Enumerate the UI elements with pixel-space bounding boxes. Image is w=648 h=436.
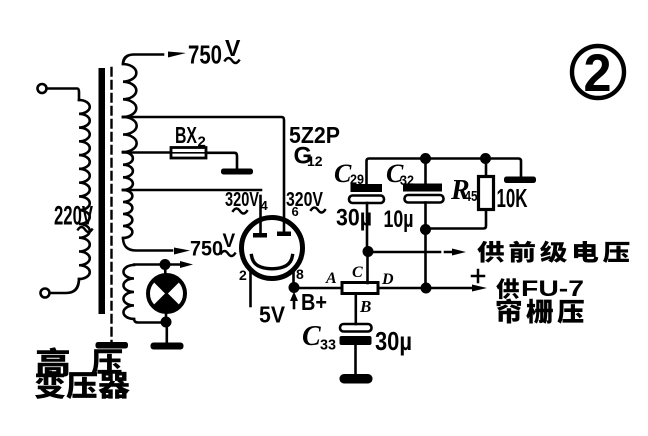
label 供前级电压	[477, 241, 504, 263]
svg-text:750: 750	[188, 40, 222, 70]
wire filament top lead with arrow	[134, 263, 182, 266]
wire tap to tube pin 4	[123, 189, 261, 192]
svg-text:220V: 220V	[54, 201, 93, 231]
svg-text:30µ: 30µ	[336, 205, 372, 232]
fuse BX2	[171, 148, 206, 159]
wire choke D to output	[378, 287, 474, 290]
tube anode pin 4 lead	[259, 196, 262, 233]
filter choke box	[342, 283, 378, 294]
transformer T1 primary bottom terminal	[41, 289, 50, 298]
tube filament	[252, 256, 293, 269]
svg-text:10µ: 10µ	[384, 206, 414, 233]
svg-text:32: 32	[400, 172, 414, 188]
wire primary top lead	[47, 89, 80, 101]
transformer HV secondary winding	[123, 64, 136, 117]
svg-text:C: C	[352, 264, 363, 281]
junction dot lamp top	[160, 259, 171, 270]
capacitor C33	[354, 294, 357, 325]
wire primary bottom lead	[50, 279, 80, 293]
svg-text:C: C	[302, 321, 321, 352]
junction dot lamp bottom	[161, 317, 172, 328]
ground lamp	[151, 343, 184, 350]
junction dot C32 top	[420, 153, 431, 164]
svg-text:12: 12	[307, 153, 323, 169]
svg-text:5V: 5V	[259, 302, 286, 328]
capacitor C29	[351, 184, 383, 192]
svg-text:BX: BX	[175, 122, 197, 148]
wire 750V top lead	[123, 55, 163, 65]
svg-text:B: B	[359, 297, 371, 316]
circled number 2	[572, 46, 624, 98]
svg-text:29: 29	[350, 171, 364, 187]
junction dot R45 bottom	[420, 224, 431, 235]
rectifier tube V1 5Z2P envelope	[242, 218, 303, 279]
svg-text:B+: B+	[301, 289, 327, 315]
junction dot R45 top	[480, 153, 491, 164]
wire 750V bottom lead	[123, 238, 172, 251]
tube anode plate pin 6	[277, 232, 291, 237]
svg-text:2: 2	[584, 44, 612, 103]
svg-text:8: 8	[296, 266, 304, 282]
pilot lamp	[164, 265, 167, 279]
wire tap to tube pin 6	[123, 117, 284, 232]
svg-text:750: 750	[190, 238, 223, 261]
svg-text:FU-7: FU-7	[521, 276, 584, 301]
svg-text:V: V	[223, 231, 236, 252]
svg-text:45: 45	[465, 188, 478, 205]
node B+ junction dot	[289, 282, 300, 293]
tube pin 2 lead	[249, 273, 252, 306]
junction dot on D line	[421, 283, 432, 294]
svg-text:33: 33	[320, 337, 336, 354]
resistor R45	[485, 159, 488, 177]
transformer core	[99, 68, 106, 314]
svg-text:2: 2	[198, 134, 206, 151]
ground C33	[340, 374, 373, 384]
label +	[472, 270, 484, 282]
wire filament bottom lead	[134, 319, 166, 323]
transformer 5V filament winding	[123, 265, 134, 319]
svg-text:30µ: 30µ	[375, 326, 412, 356]
junction dot C29 bottom	[363, 246, 374, 257]
label 高压变压器	[37, 347, 69, 377]
ground core	[96, 342, 129, 349]
tube anode plate pin 4	[253, 233, 267, 238]
svg-text:D: D	[381, 271, 394, 288]
wire choke C terminal	[366, 252, 369, 283]
svg-text:320V: 320V	[225, 189, 259, 211]
wire B+ to choke A	[294, 287, 342, 290]
wire tap to fuse	[123, 151, 171, 154]
wire lamp to ground	[166, 322, 169, 343]
B+ arrow	[293, 296, 296, 308]
tube pin 8 lead	[292, 272, 295, 287]
wire fuse to ground	[206, 153, 237, 169]
ground fuse	[221, 169, 253, 175]
capacitor C32	[424, 159, 427, 185]
svg-text:320V: 320V	[286, 189, 324, 211]
svg-text:4: 4	[261, 198, 269, 213]
transformer T1 primary winding 220V	[79, 100, 90, 279]
ground top right	[504, 177, 536, 184]
svg-text:10K: 10K	[497, 183, 528, 213]
transformer T1 primary top terminal	[38, 84, 47, 93]
wire front-stage output	[374, 251, 453, 254]
svg-text:2: 2	[239, 267, 247, 283]
label 帘栅压	[497, 299, 521, 324]
svg-text:A: A	[325, 270, 337, 287]
label 供FU-7	[496, 278, 519, 299]
top bus wire with ground	[367, 159, 522, 185]
